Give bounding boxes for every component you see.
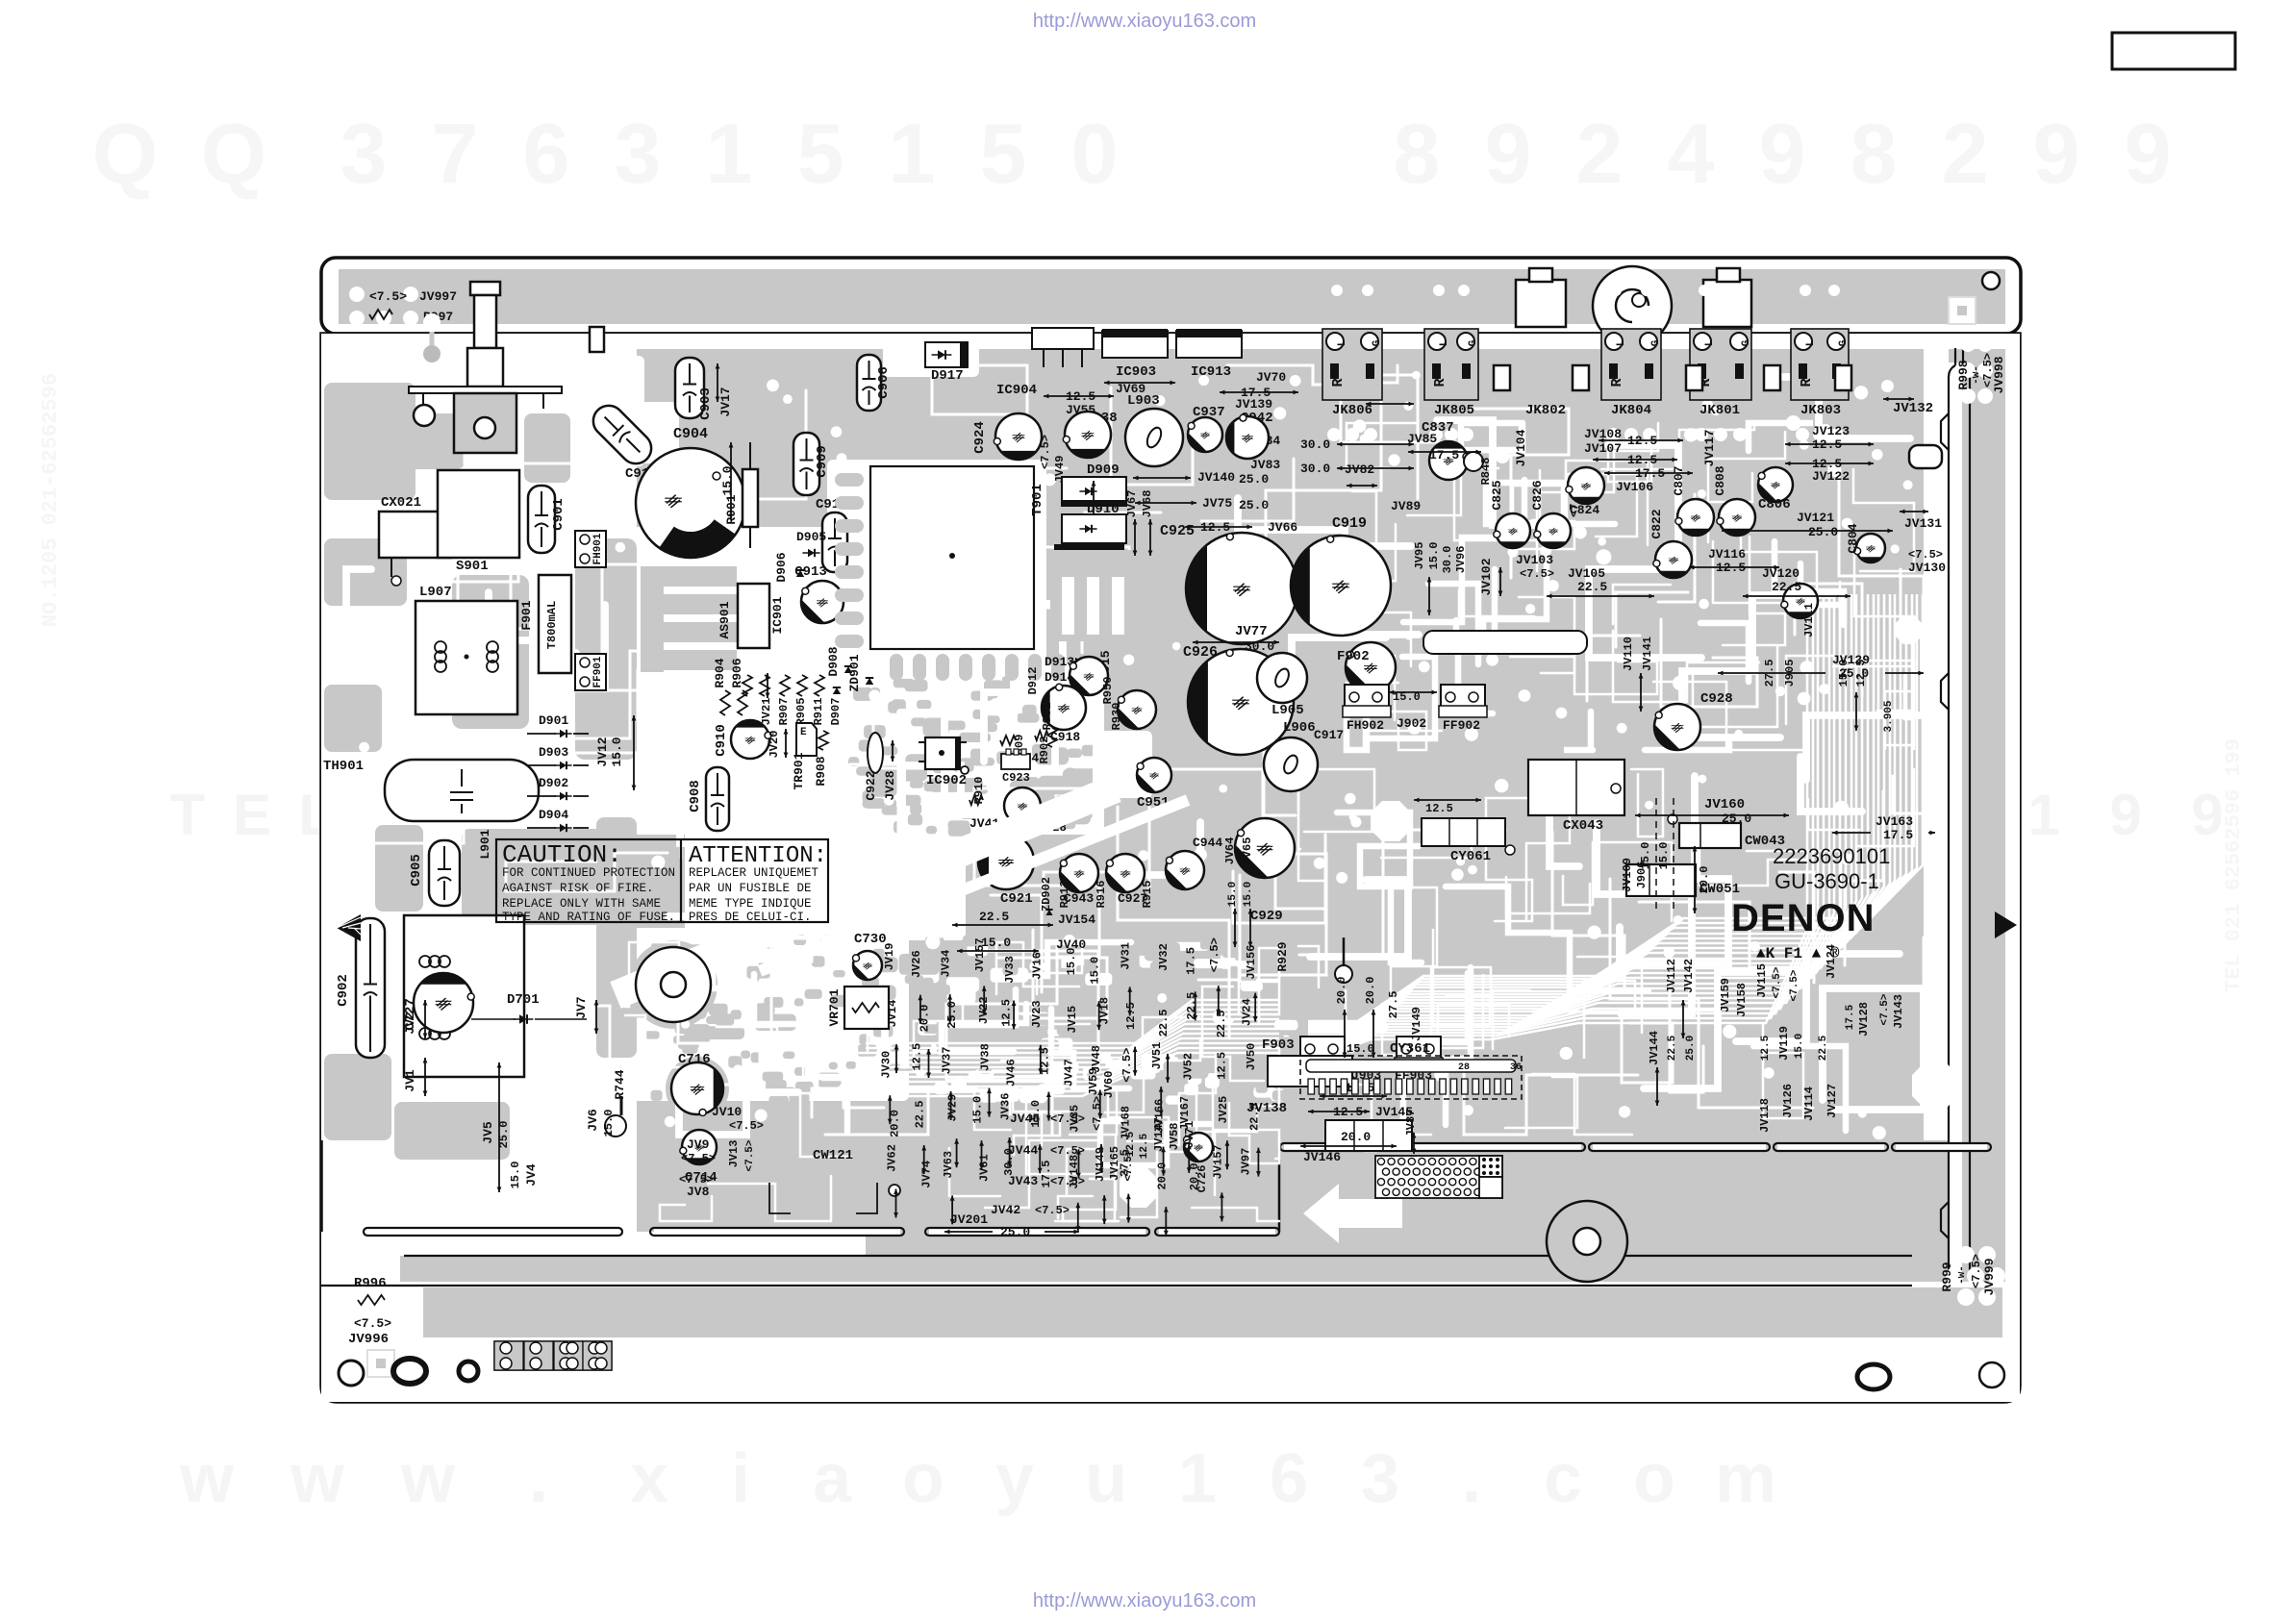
svg-text:http://www.xiaoyu163.com: http://www.xiaoyu163.com bbox=[1033, 1590, 1256, 1612]
svg-text:JV5: JV5 bbox=[481, 1121, 495, 1144]
svg-text:JV48: JV48 bbox=[1090, 1045, 1103, 1073]
svg-text:FH902: FH902 bbox=[1347, 718, 1384, 733]
svg-text:9: 9 bbox=[1485, 106, 1532, 201]
svg-text:22.5: 22.5 bbox=[1772, 580, 1801, 594]
svg-text:22.5: 22.5 bbox=[914, 1101, 927, 1129]
svg-text:<7.5>: <7.5> bbox=[1091, 1096, 1104, 1131]
svg-text:IC901: IC901 bbox=[770, 596, 785, 634]
svg-text:12.5: 12.5 bbox=[1038, 1047, 1051, 1075]
svg-text:27.5: 27.5 bbox=[1763, 660, 1776, 687]
svg-text:1: 1 bbox=[2027, 783, 2059, 847]
svg-text:JV47: JV47 bbox=[1062, 1059, 1075, 1087]
svg-text:12.5: 12.5 bbox=[1124, 1002, 1138, 1030]
svg-text:JV40: JV40 bbox=[1056, 937, 1086, 952]
svg-text:u: u bbox=[1085, 1440, 1127, 1517]
svg-text:JV65: JV65 bbox=[1241, 837, 1254, 865]
svg-text:JV38: JV38 bbox=[979, 1043, 993, 1071]
svg-text:36: 36 bbox=[1510, 1062, 1522, 1073]
svg-text:30.0: 30.0 bbox=[1300, 462, 1330, 476]
svg-text:C808: C808 bbox=[1713, 465, 1727, 495]
svg-text:JV130: JV130 bbox=[1908, 561, 1946, 575]
svg-text:28: 28 bbox=[1458, 1062, 1470, 1073]
svg-text:MEME TYPE INDIQUE: MEME TYPE INDIQUE bbox=[689, 897, 812, 911]
svg-text:12.5: 12.5 bbox=[1139, 1133, 1150, 1159]
svg-text:JV17: JV17 bbox=[718, 387, 733, 416]
svg-text:JV52: JV52 bbox=[1181, 1053, 1195, 1081]
svg-text:JV132: JV132 bbox=[1893, 401, 1933, 416]
svg-text:D906: D906 bbox=[774, 552, 789, 582]
svg-text:L: L bbox=[1616, 339, 1627, 346]
svg-text:1: 1 bbox=[1178, 1440, 1217, 1517]
svg-text:9: 9 bbox=[2125, 106, 2172, 201]
svg-text:JV60: JV60 bbox=[1102, 1071, 1116, 1099]
svg-text:G: G bbox=[1838, 339, 1850, 346]
svg-text:JV28: JV28 bbox=[883, 770, 897, 800]
svg-text:JV146: JV146 bbox=[1303, 1150, 1341, 1164]
svg-text:15.0: 15.0 bbox=[1243, 882, 1254, 907]
svg-text:<7.5>: <7.5> bbox=[1789, 969, 1800, 1001]
svg-text:12.5: 12.5 bbox=[1760, 1035, 1772, 1061]
svg-text:JV9: JV9 bbox=[687, 1137, 710, 1152]
svg-text:PRES DE CELUI-CI.: PRES DE CELUI-CI. bbox=[689, 911, 812, 924]
svg-text:C804: C804 bbox=[1846, 523, 1860, 553]
svg-text:JV10: JV10 bbox=[712, 1105, 742, 1119]
svg-text:JV23: JV23 bbox=[1030, 1000, 1044, 1028]
svg-text:JK805: JK805 bbox=[1434, 403, 1474, 418]
svg-text:NO.1205 021-62562596: NO.1205 021-62562596 bbox=[38, 373, 63, 627]
svg-text:FF902: FF902 bbox=[1443, 718, 1480, 733]
svg-text:TH901: TH901 bbox=[323, 759, 364, 774]
svg-text:C826: C826 bbox=[1530, 480, 1545, 510]
svg-text:17.5: 17.5 bbox=[1845, 1004, 1856, 1030]
svg-text:<7.5>: <7.5> bbox=[1120, 1048, 1134, 1083]
svg-text:JV19: JV19 bbox=[883, 943, 896, 971]
svg-text:3: 3 bbox=[615, 106, 662, 201]
svg-text:TYPE AND RATING OF FUSE.: TYPE AND RATING OF FUSE. bbox=[502, 911, 675, 924]
svg-text:R931: R931 bbox=[1041, 703, 1054, 731]
svg-text:R905: R905 bbox=[794, 698, 808, 726]
svg-text:20.0: 20.0 bbox=[1188, 1162, 1201, 1190]
svg-text:JV6: JV6 bbox=[586, 1109, 600, 1132]
svg-text:G: G bbox=[1372, 339, 1383, 346]
svg-text:JV120: JV120 bbox=[1762, 566, 1800, 581]
svg-text:JV34: JV34 bbox=[940, 950, 953, 978]
svg-text:8: 8 bbox=[1850, 106, 1898, 201]
svg-text:JV44: JV44 bbox=[1008, 1143, 1038, 1158]
svg-text:17.5: 17.5 bbox=[1185, 947, 1198, 975]
svg-text:C822: C822 bbox=[1649, 509, 1664, 538]
svg-text:D907: D907 bbox=[829, 698, 843, 726]
svg-text:15.0: 15.0 bbox=[720, 465, 735, 495]
svg-text:25.0: 25.0 bbox=[1239, 472, 1269, 487]
svg-text:R930: R930 bbox=[1110, 703, 1123, 731]
svg-text:JV29: JV29 bbox=[946, 1094, 960, 1122]
svg-text:C825: C825 bbox=[1490, 480, 1504, 510]
svg-text:R: R bbox=[1799, 378, 1815, 387]
svg-text:15.0: 15.0 bbox=[509, 1162, 522, 1189]
svg-text:<7.5>: <7.5> bbox=[681, 1152, 716, 1165]
svg-text:D904: D904 bbox=[539, 808, 568, 822]
svg-text:JV62: JV62 bbox=[886, 1144, 899, 1172]
svg-text:R904: R904 bbox=[713, 658, 727, 687]
svg-text:C906: C906 bbox=[876, 366, 892, 399]
svg-text:C913: C913 bbox=[794, 564, 827, 580]
svg-text:w: w bbox=[290, 1440, 345, 1517]
svg-text:<7.5>: <7.5> bbox=[1970, 1254, 1983, 1288]
svg-text:<7.5>: <7.5> bbox=[369, 289, 407, 304]
svg-text:FOR CONTINUED PROTECTION: FOR CONTINUED PROTECTION bbox=[502, 866, 675, 880]
svg-text:12.5: 12.5 bbox=[1425, 802, 1453, 815]
svg-text:D912: D912 bbox=[1026, 667, 1040, 695]
svg-text:2: 2 bbox=[1576, 106, 1624, 201]
svg-text:R901: R901 bbox=[724, 494, 739, 524]
svg-text:JV103: JV103 bbox=[1516, 553, 1553, 567]
svg-text:C922: C922 bbox=[864, 770, 878, 800]
svg-text:<7.5>: <7.5> bbox=[1039, 435, 1052, 469]
svg-text:R: R bbox=[1330, 378, 1347, 387]
svg-text:JV158: JV158 bbox=[1735, 983, 1749, 1017]
svg-text:JK803: JK803 bbox=[1800, 403, 1841, 418]
svg-text:JV51: JV51 bbox=[1150, 1042, 1164, 1070]
svg-text:JV89: JV89 bbox=[1391, 499, 1421, 513]
svg-text:L: L bbox=[1704, 339, 1716, 346]
svg-text:0: 0 bbox=[1071, 106, 1119, 201]
svg-text:9: 9 bbox=[2191, 783, 2223, 847]
svg-text:S901: S901 bbox=[456, 559, 489, 574]
svg-text:6: 6 bbox=[1270, 1440, 1308, 1517]
svg-text:JV117: JV117 bbox=[1702, 429, 1717, 466]
svg-text:8: 8 bbox=[1394, 106, 1441, 201]
svg-text:CY361: CY361 bbox=[1390, 1041, 1430, 1057]
svg-text:w: w bbox=[179, 1440, 235, 1517]
svg-text:2: 2 bbox=[1942, 106, 1989, 201]
svg-text:JV996: JV996 bbox=[348, 1332, 389, 1347]
svg-text:JV30: JV30 bbox=[879, 1051, 893, 1079]
svg-text:T: T bbox=[170, 783, 206, 847]
svg-text:C919: C919 bbox=[1332, 515, 1367, 532]
svg-text:15.0: 15.0 bbox=[1794, 1034, 1805, 1059]
svg-text:JV14: JV14 bbox=[886, 1000, 899, 1028]
svg-text:JV95: JV95 bbox=[1413, 542, 1426, 570]
svg-text:15.0: 15.0 bbox=[981, 936, 1011, 950]
svg-text:JV21: JV21 bbox=[760, 698, 773, 726]
svg-text:.: . bbox=[529, 1440, 548, 1517]
svg-text:JV997: JV997 bbox=[419, 289, 457, 304]
svg-text:AGAINST RISK OF FIRE.: AGAINST RISK OF FIRE. bbox=[502, 882, 654, 895]
svg-text:<7.5>: <7.5> bbox=[1050, 1112, 1085, 1126]
svg-text:JV123: JV123 bbox=[1812, 424, 1850, 438]
svg-text:C944: C944 bbox=[1193, 836, 1222, 850]
svg-text:G: G bbox=[1468, 339, 1479, 346]
svg-text:R950: R950 bbox=[1101, 677, 1115, 705]
svg-text:JV114: JV114 bbox=[1802, 1087, 1816, 1121]
svg-text:Q: Q bbox=[201, 106, 266, 201]
svg-text:D908: D908 bbox=[826, 646, 841, 676]
svg-text:JV20: JV20 bbox=[768, 731, 781, 759]
svg-text:C929: C929 bbox=[1250, 909, 1283, 924]
svg-text:CX021: CX021 bbox=[381, 495, 421, 511]
svg-text:JV68: JV68 bbox=[1141, 490, 1154, 518]
svg-text:22.5: 22.5 bbox=[1667, 1035, 1678, 1061]
svg-text:JV154: JV154 bbox=[1058, 912, 1095, 927]
svg-text:JV110: JV110 bbox=[1622, 637, 1635, 671]
svg-text:JV116: JV116 bbox=[1708, 547, 1746, 562]
svg-text:R916: R916 bbox=[1095, 881, 1108, 909]
svg-text:JV166: JV166 bbox=[1153, 1099, 1167, 1134]
svg-text:17.5: 17.5 bbox=[1883, 828, 1913, 842]
svg-text:22.5: 22.5 bbox=[1185, 992, 1198, 1020]
svg-text:D901: D901 bbox=[539, 713, 568, 728]
svg-text:JV46: JV46 bbox=[1005, 1059, 1019, 1087]
svg-text:JV1: JV1 bbox=[403, 1069, 417, 1092]
svg-text:JV87: JV87 bbox=[1404, 1110, 1418, 1137]
svg-text:JV140: JV140 bbox=[1197, 470, 1235, 485]
svg-text:G: G bbox=[1650, 339, 1662, 346]
svg-text:i: i bbox=[731, 1440, 750, 1517]
svg-text:CY061: CY061 bbox=[1450, 849, 1491, 864]
svg-text:30.0: 30.0 bbox=[1300, 437, 1330, 452]
svg-text:JV160: JV160 bbox=[1704, 797, 1745, 812]
svg-text:JV168: JV168 bbox=[1120, 1106, 1133, 1140]
svg-text:CW121: CW121 bbox=[813, 1148, 853, 1163]
svg-text:25.0: 25.0 bbox=[1808, 525, 1838, 539]
svg-text:JV7: JV7 bbox=[574, 996, 589, 1018]
svg-text:GU-3690-1: GU-3690-1 bbox=[1775, 869, 1879, 893]
svg-text:JV61: JV61 bbox=[977, 1154, 991, 1182]
svg-text:JV77: JV77 bbox=[1235, 624, 1268, 639]
svg-text:JK801: JK801 bbox=[1699, 403, 1740, 418]
svg-text:JV75: JV75 bbox=[1202, 496, 1232, 511]
svg-text:22.5: 22.5 bbox=[1157, 1009, 1171, 1037]
svg-text:ZD901: ZD901 bbox=[847, 654, 862, 691]
svg-text:3: 3 bbox=[340, 106, 388, 201]
svg-text:<7.5>: <7.5> bbox=[1035, 1204, 1070, 1217]
svg-text:15.0: 15.0 bbox=[610, 737, 624, 766]
svg-text:D903: D903 bbox=[539, 745, 568, 760]
svg-text:JV144: JV144 bbox=[1648, 1031, 1661, 1065]
svg-text:C928: C928 bbox=[1700, 691, 1733, 707]
svg-text:JV8: JV8 bbox=[687, 1185, 710, 1199]
svg-text:L: L bbox=[1337, 339, 1348, 346]
svg-text:-w-: -w- bbox=[1956, 1265, 1968, 1285]
svg-text:IC902: IC902 bbox=[926, 773, 967, 788]
svg-text:.: . bbox=[1462, 1440, 1481, 1517]
svg-text:x: x bbox=[630, 1440, 668, 1517]
svg-text:2223690101: 2223690101 bbox=[1773, 844, 1890, 868]
svg-text:27.5: 27.5 bbox=[1118, 1149, 1131, 1177]
svg-text:5: 5 bbox=[980, 106, 1027, 201]
svg-text:J906: J906 bbox=[1635, 862, 1649, 889]
svg-text:15.0: 15.0 bbox=[1089, 957, 1102, 985]
svg-text:E: E bbox=[233, 783, 271, 847]
svg-text:15.0: 15.0 bbox=[602, 1110, 616, 1137]
svg-text:3: 3 bbox=[1361, 1440, 1399, 1517]
svg-text:JV70: JV70 bbox=[1256, 370, 1286, 385]
svg-text:25.0: 25.0 bbox=[945, 1001, 959, 1029]
svg-text:D917: D917 bbox=[931, 368, 964, 384]
svg-text:L907: L907 bbox=[419, 585, 452, 600]
svg-text:FF901: FF901 bbox=[592, 656, 604, 687]
svg-text:R744: R744 bbox=[613, 1069, 627, 1099]
svg-text:JV105: JV105 bbox=[1568, 566, 1605, 581]
svg-text:L: L bbox=[1439, 339, 1450, 346]
svg-text:JV156: JV156 bbox=[1245, 945, 1258, 980]
svg-text:25.0: 25.0 bbox=[1722, 812, 1751, 826]
svg-text:JV50: JV50 bbox=[1245, 1043, 1258, 1071]
svg-text:JV122: JV122 bbox=[1812, 469, 1850, 484]
svg-text:JV15: JV15 bbox=[1066, 1006, 1079, 1034]
svg-text:C910: C910 bbox=[714, 724, 729, 757]
svg-text:IC913: IC913 bbox=[1191, 364, 1231, 380]
svg-text:4: 4 bbox=[1668, 106, 1715, 201]
svg-text:5: 5 bbox=[797, 106, 844, 201]
svg-text:JV24: JV24 bbox=[1240, 998, 1253, 1026]
svg-text:JV74: JV74 bbox=[920, 1161, 934, 1188]
svg-text:9: 9 bbox=[1759, 106, 1806, 201]
svg-text:<7.5>: <7.5> bbox=[744, 1139, 756, 1171]
svg-text:<7.5>: <7.5> bbox=[1772, 966, 1783, 998]
svg-text:L906: L906 bbox=[1283, 720, 1316, 736]
svg-text:JV118: JV118 bbox=[1758, 1098, 1772, 1133]
svg-text:T800mAL: T800mAL bbox=[545, 601, 559, 649]
svg-text:JV143: JV143 bbox=[1892, 994, 1905, 1029]
svg-text:CX043: CX043 bbox=[1563, 818, 1603, 834]
svg-text:20.0: 20.0 bbox=[888, 1110, 901, 1137]
svg-text:http://www.xiaoyu163.com: http://www.xiaoyu163.com bbox=[1033, 11, 1256, 32]
svg-text:R902: R902 bbox=[1038, 737, 1051, 764]
svg-text:JV139: JV139 bbox=[1235, 397, 1272, 412]
svg-text:C917: C917 bbox=[1314, 728, 1344, 742]
svg-text:c: c bbox=[1544, 1440, 1582, 1517]
svg-text:JV115: JV115 bbox=[1755, 963, 1769, 998]
svg-text:JV119: JV119 bbox=[1777, 1026, 1791, 1061]
svg-text:E: E bbox=[800, 727, 807, 738]
svg-text:27.5: 27.5 bbox=[1387, 991, 1400, 1019]
svg-text:25.0: 25.0 bbox=[1239, 498, 1269, 512]
svg-text:JV18: JV18 bbox=[1098, 997, 1112, 1025]
svg-text:JV82: JV82 bbox=[1345, 462, 1374, 477]
svg-text:JV159: JV159 bbox=[1719, 978, 1732, 1012]
svg-text:JV127: JV127 bbox=[1825, 1084, 1839, 1118]
svg-text:<7.5>: <7.5> bbox=[1050, 1144, 1085, 1158]
svg-text:<7.5>: <7.5> bbox=[1520, 567, 1554, 581]
svg-text:C824: C824 bbox=[1570, 503, 1599, 517]
svg-text:JV126: JV126 bbox=[1781, 1084, 1795, 1118]
svg-text:D902: D902 bbox=[539, 776, 568, 790]
svg-text:JV149: JV149 bbox=[1410, 1007, 1423, 1041]
svg-text:JV104: JV104 bbox=[1514, 429, 1528, 466]
svg-text:12.5: 12.5 bbox=[999, 999, 1013, 1027]
svg-text:JV201: JV201 bbox=[950, 1212, 988, 1227]
svg-text:22.5: 22.5 bbox=[1818, 1035, 1829, 1061]
svg-text:15.0: 15.0 bbox=[1347, 1042, 1374, 1056]
svg-text:JV22: JV22 bbox=[977, 996, 991, 1024]
svg-text:C901: C901 bbox=[551, 498, 566, 531]
svg-text:Q: Q bbox=[92, 106, 158, 201]
svg-text:9: 9 bbox=[2109, 783, 2141, 847]
svg-text:F903: F903 bbox=[1262, 1037, 1295, 1053]
svg-text:o: o bbox=[1633, 1440, 1675, 1517]
svg-text:JK806: JK806 bbox=[1332, 403, 1372, 418]
svg-text:y: y bbox=[995, 1440, 1034, 1517]
svg-text:ATTENTION:: ATTENTION: bbox=[689, 843, 827, 869]
svg-text:L905: L905 bbox=[1271, 703, 1304, 718]
svg-text:25.0: 25.0 bbox=[1000, 1225, 1030, 1239]
svg-text:JV96: JV96 bbox=[1454, 546, 1468, 574]
svg-text:JV2: JV2 bbox=[403, 1012, 417, 1035]
svg-text:JV109: JV109 bbox=[1621, 858, 1634, 892]
svg-text:G: G bbox=[1741, 339, 1752, 346]
svg-text:6: 6 bbox=[523, 106, 570, 201]
svg-text:REPLACER UNIQUEMET: REPLACER UNIQUEMET bbox=[689, 866, 819, 880]
svg-text:JV142: JV142 bbox=[1682, 959, 1696, 993]
svg-text:<7.5>: <7.5> bbox=[1879, 993, 1891, 1025]
svg-text:C908: C908 bbox=[688, 780, 703, 812]
svg-text:JV64: JV64 bbox=[1223, 837, 1237, 865]
svg-text:TEL 021 62562596 199: TEL 021 62562596 199 bbox=[2222, 738, 2246, 992]
svg-text:VR701: VR701 bbox=[827, 988, 842, 1026]
svg-text:<7.5>: <7.5> bbox=[729, 1119, 764, 1133]
svg-text:JV141: JV141 bbox=[1641, 637, 1654, 671]
svg-text:JV121: JV121 bbox=[1797, 511, 1834, 525]
svg-text:JK804: JK804 bbox=[1611, 403, 1651, 418]
svg-text:JV37: JV37 bbox=[941, 1047, 954, 1075]
svg-text:1: 1 bbox=[889, 106, 936, 201]
svg-text:JV167: JV167 bbox=[1178, 1096, 1192, 1131]
svg-text:F901: F901 bbox=[519, 600, 534, 630]
svg-text:T901: T901 bbox=[1030, 484, 1045, 516]
svg-text:D701: D701 bbox=[507, 992, 540, 1008]
svg-text:R911: R911 bbox=[812, 698, 825, 726]
svg-text:JV97: JV97 bbox=[1239, 1148, 1252, 1176]
svg-text:R929: R929 bbox=[1275, 941, 1290, 971]
svg-text:15.0: 15.0 bbox=[1657, 842, 1671, 870]
svg-text:20.0: 20.0 bbox=[919, 1005, 932, 1033]
svg-text:20.0: 20.0 bbox=[1364, 977, 1377, 1005]
svg-text:JV999: JV999 bbox=[1982, 1258, 1997, 1295]
svg-text:JV131: JV131 bbox=[1904, 516, 1942, 531]
svg-text:JV4: JV4 bbox=[524, 1163, 539, 1187]
svg-text:12.5: 12.5 bbox=[1215, 1052, 1228, 1080]
svg-text:JV49: JV49 bbox=[1053, 456, 1067, 484]
svg-text:C904: C904 bbox=[673, 426, 708, 442]
svg-text:JV128: JV128 bbox=[1857, 1002, 1871, 1037]
svg-text:JV124: JV124 bbox=[1825, 944, 1838, 979]
svg-text:ZD902: ZD902 bbox=[1040, 877, 1053, 912]
svg-text:C926: C926 bbox=[1183, 644, 1218, 661]
svg-text:R999: R999 bbox=[1940, 1262, 1954, 1291]
svg-text:JV157: JV157 bbox=[1211, 1144, 1224, 1179]
svg-text:JV67: JV67 bbox=[1125, 490, 1139, 518]
svg-text:JV32: JV32 bbox=[1157, 943, 1171, 971]
svg-text:12.5: 12.5 bbox=[1345, 1081, 1374, 1095]
svg-text:D905: D905 bbox=[796, 530, 826, 544]
svg-text:w: w bbox=[400, 1440, 456, 1517]
svg-text:JV31: JV31 bbox=[1120, 942, 1133, 970]
svg-text:R998: R998 bbox=[1956, 360, 1971, 389]
svg-text:C716: C716 bbox=[678, 1052, 711, 1067]
svg-text:20.0: 20.0 bbox=[1341, 1130, 1371, 1144]
svg-text:PAR UN FUSIBLE DE: PAR UN FUSIBLE DE bbox=[689, 882, 812, 895]
svg-text:R: R bbox=[1609, 378, 1625, 387]
svg-text:22.5: 22.5 bbox=[1577, 580, 1607, 594]
svg-text:R908: R908 bbox=[814, 756, 828, 786]
svg-text:3.905: 3.905 bbox=[1883, 700, 1895, 732]
svg-text:7: 7 bbox=[432, 106, 479, 201]
svg-text:JV163: JV163 bbox=[1876, 814, 1913, 829]
svg-text:JV16: JV16 bbox=[1031, 952, 1045, 980]
svg-text:JV45: JV45 bbox=[1010, 1112, 1040, 1126]
